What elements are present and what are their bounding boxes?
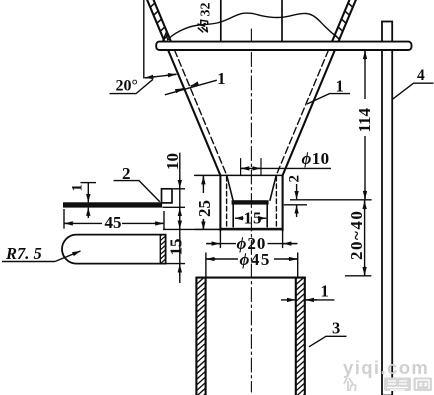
svg-text:ϕ10: ϕ10 — [302, 149, 330, 168]
svg-text:yiqi.com: yiqi.com — [343, 357, 429, 378]
svg-text:25: 25 — [195, 200, 214, 217]
svg-text:1: 1 — [217, 69, 225, 88]
svg-text:3: 3 — [332, 319, 340, 338]
svg-text:45: 45 — [105, 213, 122, 232]
svg-text:4: 4 — [417, 67, 425, 84]
svg-text:2: 2 — [287, 175, 303, 183]
svg-text:114: 114 — [355, 107, 374, 132]
svg-text:10: 10 — [163, 153, 182, 170]
svg-text:15: 15 — [244, 209, 263, 228]
svg-text:20~40: 20~40 — [347, 210, 366, 260]
svg-text:15: 15 — [167, 239, 186, 256]
svg-text:1: 1 — [321, 282, 329, 301]
svg-text:1: 1 — [336, 77, 344, 96]
svg-text:32: 32 — [199, 3, 214, 17]
svg-text:R7. 5: R7. 5 — [5, 244, 42, 263]
svg-text:1: 1 — [70, 184, 86, 192]
svg-text:ϕ45: ϕ45 — [240, 250, 271, 269]
svg-text:2: 2 — [122, 164, 131, 183]
svg-text:20°: 20° — [116, 78, 138, 95]
